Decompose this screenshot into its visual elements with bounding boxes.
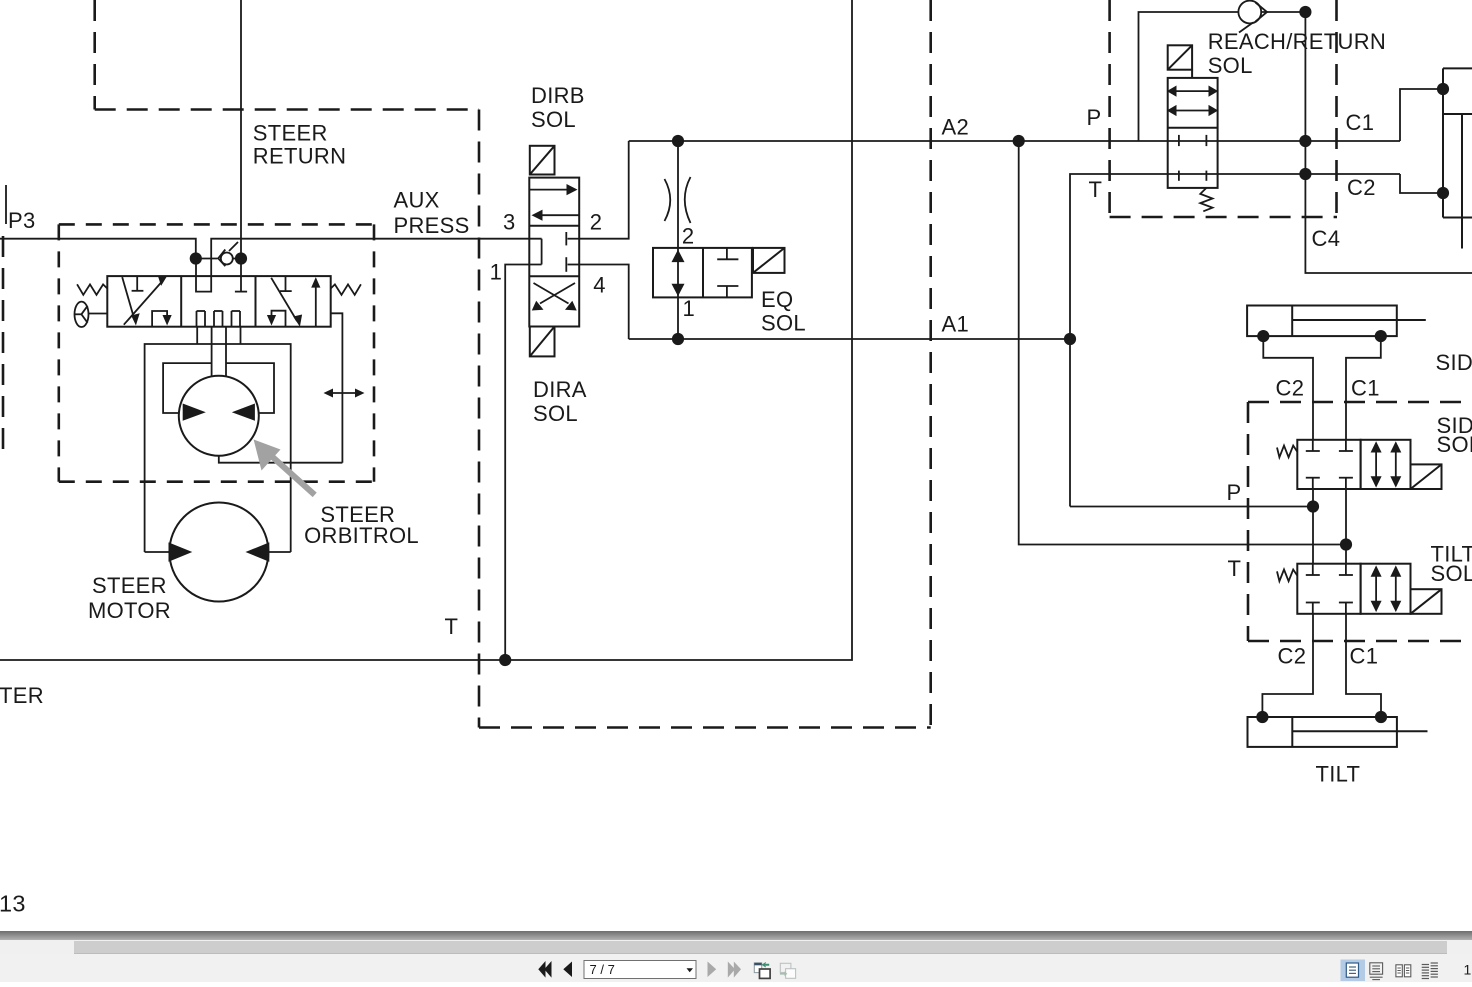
wire: A2 line: [629, 140, 1168, 142]
spring: steering valve right: [331, 284, 361, 295]
svg-text:TER: TER: [0, 683, 44, 708]
steering valve center bottom comb: [197, 311, 241, 327]
svg-text:7 / 7: 7 / 7: [590, 962, 615, 977]
svg-text:13: 13: [0, 891, 26, 917]
svg-text:C1: C1: [1351, 376, 1380, 401]
REACH valve body: [1168, 78, 1218, 188]
svg-text:EQ: EQ: [761, 287, 793, 312]
node: dot ss cyl right: [1375, 330, 1387, 342]
node: dot A1/EQ: [672, 333, 684, 345]
svg-text:T: T: [1089, 177, 1103, 202]
wire: main dashed box left edge: [478, 110, 481, 728]
node: dot P junction: [1307, 500, 1319, 512]
svg-text:T: T: [445, 614, 459, 639]
wire: T line left segment: [1070, 174, 1168, 507]
steering valve center U port: [196, 259, 211, 292]
svg-text:STEER: STEER: [92, 573, 167, 598]
node: dot ss cyl left: [1257, 330, 1269, 342]
svg-text:STEER: STEER: [253, 121, 328, 146]
wire: DIRB port1 to tank: [505, 265, 541, 661]
svg-text:P: P: [1227, 480, 1242, 505]
node: dot C1 junction: [1299, 135, 1311, 147]
svg-text:ORBITROL: ORBITROL: [304, 523, 419, 548]
wire: ss valve right port down: [1345, 489, 1347, 564]
spring: tilt valve: [1277, 570, 1297, 582]
wire: tilt C2 line down: [1262, 614, 1313, 717]
svg-text:AUX: AUX: [394, 188, 440, 213]
steering control valve body: [107, 276, 330, 327]
svg-text:2: 2: [590, 210, 603, 235]
svg-text:A2: A2: [942, 115, 970, 140]
REACH valve double arrows: [1176, 90, 1209, 92]
wire: orbitrol port line 3: [225, 327, 227, 377]
wire: aux press line to DIRB valve port 3: [211, 239, 541, 275]
svg-text:4: 4: [593, 273, 606, 298]
tilt valve arrows: [1376, 568, 1396, 610]
wire: top dashed horizontal: [95, 108, 479, 111]
wire: main dashed box bottom edge: [479, 726, 931, 729]
solenoid tilt: [1411, 589, 1442, 614]
node: dot tilt cyl left: [1256, 711, 1268, 723]
tilt valve ticks: [1306, 564, 1353, 614]
wire: A1 branch to P: [1070, 506, 1313, 508]
steering valve center T port crossbar: [235, 291, 247, 293]
wire: check valve top line (reach): [1139, 12, 1239, 141]
wire: C1 to cylinder: [1400, 89, 1443, 141]
svg-text:T: T: [1228, 556, 1242, 581]
wire: check valve link line: [196, 258, 218, 260]
steering valve right box arrows: [271, 276, 316, 327]
wire: DIR port 2 riser: [579, 141, 629, 239]
node: junction dot on tank line: [499, 654, 511, 666]
solenoid EQ: [753, 248, 785, 273]
wire: orbitrol inner loop left: [163, 363, 212, 413]
svg-text:1: 1: [1464, 962, 1472, 978]
side shift valve body: [1297, 440, 1360, 489]
flow restrictor curves: [665, 179, 671, 221]
wire: C4 line: [1305, 12, 1472, 273]
EQ valve flow arrows: [677, 248, 679, 298]
svg-text:P: P: [1087, 105, 1102, 130]
wire: restrictor drop: [677, 141, 679, 248]
svg-text:A1: A1: [942, 312, 970, 337]
wire: ss cyl C2 line: [1263, 336, 1313, 440]
svg-text:C2: C2: [1276, 376, 1305, 401]
wire: orbitrol outer loop: [145, 344, 291, 552]
wire: EQ to A1: [677, 297, 679, 339]
wire: reach section dashed left: [1108, 0, 1111, 214]
svg-text:C1: C1: [1350, 644, 1379, 669]
svg-text:SOL: SOL: [533, 401, 578, 426]
wire: orbitrol inner loop right: [226, 363, 274, 413]
svg-text:1: 1: [490, 260, 503, 285]
wire: steer motor left port: [145, 551, 170, 553]
wire: orbitrol port line 4: [240, 327, 242, 344]
side shift cylinder: [1247, 306, 1426, 337]
wire: A1 line: [629, 338, 1070, 340]
reach cylinder (clipped): [1443, 68, 1472, 248]
node: junction dot left of check valve: [190, 252, 202, 264]
steering wheel actuator: [75, 302, 108, 327]
svg-text:SIDE SH: SIDE SH: [1436, 350, 1472, 375]
node: junction dot steer return: [235, 252, 247, 264]
node: dot tilt cyl right: [1375, 711, 1387, 723]
svg-text:C1: C1: [1346, 110, 1375, 135]
EQ valve blocked symbols: [717, 248, 738, 298]
tilt cylinder: [1248, 717, 1428, 747]
wire: P line through valve to C1: [1168, 140, 1400, 142]
wire: P3 supply line: [0, 239, 196, 259]
wire: T line right to C2: [1168, 173, 1400, 175]
double-headed arrow (feedback): [327, 392, 361, 394]
wire: left edge dashed: [2, 236, 5, 457]
svg-text:C4: C4: [1312, 226, 1341, 251]
steer motor: [169, 503, 268, 602]
side shift valve arrows: [1376, 444, 1396, 485]
wire: ss cyl C1 line: [1346, 336, 1381, 440]
check valve (steering): [218, 242, 238, 266]
svg-text:MOTOR: MOTOR: [88, 598, 171, 623]
REACH valve port ticks: [1179, 135, 1207, 181]
steer orbitrol metering motor: [179, 376, 259, 456]
wire: reach section dashed bottom: [1110, 216, 1337, 219]
svg-text:C2: C2: [1347, 175, 1376, 200]
wire: metering motor bottom link: [219, 456, 343, 463]
DIR valve crossed arrows: [534, 283, 569, 304]
svg-text:REACH/RETURN: REACH/RETURN: [1208, 29, 1386, 54]
wire: reach section dashed right: [1335, 0, 1338, 217]
wire: left edge stub: [5, 185, 7, 224]
svg-text:TILT: TILT: [1316, 762, 1361, 787]
steering section dashed box: [59, 224, 374, 481]
wire: tank return line: [0, 0, 852, 660]
spring: steering valve left: [77, 284, 107, 295]
svg-text:PRESS: PRESS: [394, 213, 470, 238]
wire: tilt C1 line down: [1346, 614, 1381, 717]
gray pointer arrow: [254, 440, 315, 495]
svg-text:DIRA: DIRA: [533, 377, 587, 402]
svg-text:SOL: SOL: [1208, 53, 1253, 78]
spring: REACH valve: [1200, 188, 1212, 211]
svg-text:SOL: SOL: [1437, 432, 1472, 457]
svg-text:2: 2: [682, 224, 695, 249]
DIR valve body: [529, 178, 579, 327]
node: dot C2 junction: [1299, 168, 1311, 180]
solenoid REACH/RETURN: [1168, 45, 1192, 78]
wire: main dashed box right edge: [929, 0, 932, 728]
wire: orbitrol port line 2: [211, 327, 213, 377]
svg-text:SOL: SOL: [531, 107, 576, 132]
svg-text:P3: P3: [8, 208, 36, 233]
wire: steer return vertical: [240, 0, 242, 292]
wire: steer motor right port: [268, 551, 290, 553]
solenoid DIRA: [530, 327, 555, 357]
node: dot check valve out: [1299, 6, 1311, 18]
node: dot reach cyl bottom: [1437, 187, 1449, 199]
DIR valve blocked port ticks: [566, 232, 579, 272]
tilt valve body: [1297, 564, 1360, 614]
node: dot A2 branch: [1013, 135, 1025, 147]
wire: A2 branch to tilt T: [1019, 141, 1346, 545]
check valve (reach circuit): [1238, 1, 1267, 33]
spring: side shift valve: [1277, 446, 1297, 458]
DIR valve center U connector: [541, 239, 543, 265]
svg-text:RETURN: RETURN: [253, 144, 346, 169]
wire: C2 to cylinder: [1400, 174, 1443, 193]
svg-text:SOL: SOL: [1431, 561, 1472, 586]
node: dot T junction: [1340, 538, 1352, 550]
wire: top-left dashed vertical: [93, 0, 96, 110]
svg-text:C2: C2: [1278, 644, 1307, 669]
side shift valve ticks: [1306, 440, 1353, 489]
wire: DIR port 4 drop: [579, 265, 629, 340]
node: dot A1 junction: [1064, 333, 1076, 345]
node: dot reach cyl top: [1437, 83, 1449, 95]
svg-text:3: 3: [503, 210, 516, 235]
wire: orbitrol port line 1: [196, 327, 198, 344]
DIR valve top position arrows: [529, 189, 573, 191]
wire: ss valve to P dot: [1312, 489, 1314, 564]
EQ valve body: [653, 248, 752, 298]
steering valve left box arrows: [122, 276, 167, 327]
svg-text:SOL: SOL: [761, 311, 806, 336]
svg-text:1: 1: [683, 296, 696, 321]
side/tilt dashed box: [1248, 402, 1472, 641]
solenoid side shift: [1411, 464, 1442, 489]
solenoid DIRB: [530, 146, 555, 175]
node: dot A2/restrictor: [672, 135, 684, 147]
wire: pilot feedback line: [331, 313, 343, 462]
svg-text:DIRB: DIRB: [531, 83, 585, 108]
